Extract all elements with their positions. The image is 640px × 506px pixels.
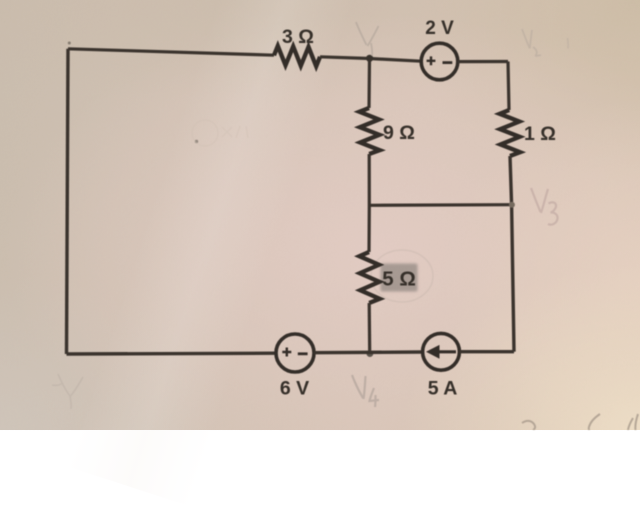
wire middle vertical lower bbox=[368, 303, 372, 354]
node junction bottom (dot) bbox=[367, 350, 374, 357]
eraser smudge behind 5 ohm label bbox=[381, 264, 418, 292]
wire middle horizontal bbox=[369, 203, 512, 207]
voltage source 2V bbox=[421, 18, 458, 80]
svg-text:3 Ω: 3 Ω bbox=[282, 26, 314, 48]
faint pencil circle sketch (4A) bbox=[192, 120, 248, 146]
wire middle vertical mid bbox=[367, 154, 370, 252]
node V4 (pencil mark) bbox=[352, 375, 379, 407]
svg-text:6 V: 6 V bbox=[280, 378, 309, 400]
pencil dot near 4A sketch bbox=[195, 140, 198, 143]
svg-text:9 Ω: 9 Ω bbox=[383, 122, 415, 144]
svg-text:2 V: 2 V bbox=[425, 18, 454, 39]
wire top-left horizontal bbox=[68, 49, 274, 55]
wire left vertical bbox=[67, 49, 69, 354]
wire right vertical lower bbox=[510, 156, 514, 352]
wire middle vertical upper bbox=[367, 59, 371, 109]
pencil scribbles bottom-right bbox=[522, 414, 638, 431]
node V1 (pencil mark) bbox=[356, 22, 379, 56]
wire right vertical upper bbox=[508, 62, 509, 111]
wire bottom-right bbox=[459, 350, 514, 353]
wire bottom-middle bbox=[314, 350, 423, 354]
resistor 1ohm bbox=[500, 110, 556, 156]
node V2 (pencil mark) bbox=[522, 29, 568, 56]
resistor 9ohm bbox=[359, 108, 415, 154]
pencil circle around 5 ohm bbox=[371, 250, 433, 302]
node junction top (dot) bbox=[366, 55, 373, 62]
svg-text:1 Ω: 1 Ω bbox=[524, 123, 556, 145]
paper speck above top-left corner bbox=[68, 42, 71, 45]
voltage source 6V bbox=[276, 334, 314, 400]
node junction middle-right (dot) bbox=[509, 202, 515, 208]
node V3 (pencil mark) bbox=[531, 188, 558, 225]
current source 5A bbox=[423, 333, 460, 399]
resistor 3ohm bbox=[274, 26, 320, 67]
svg-text:5 Ω: 5 Ω bbox=[382, 268, 416, 291]
resistor 5ohm bbox=[359, 252, 415, 303]
wire top-right bbox=[458, 60, 508, 63]
ground sketch bottom-left (pencil) bbox=[52, 374, 83, 409]
wire bottom-left bbox=[67, 352, 277, 356]
svg-text:5 A: 5 A bbox=[428, 378, 458, 400]
wire top-middle bbox=[320, 57, 421, 61]
